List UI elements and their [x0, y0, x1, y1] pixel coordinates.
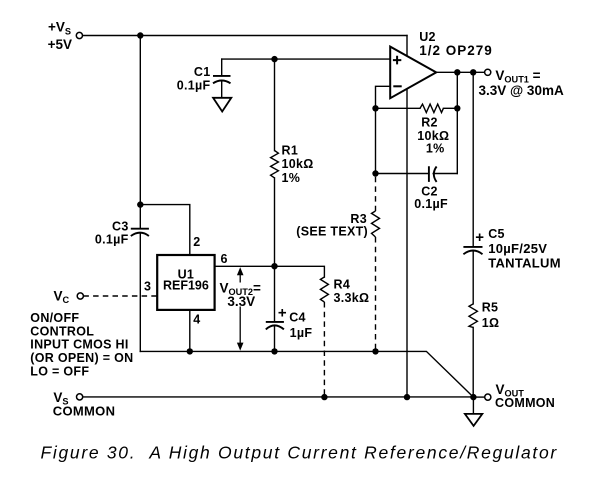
svg-text:0.1µF: 0.1µF — [95, 232, 129, 246]
svg-text:R3: R3 — [350, 212, 367, 226]
resistor R3 — [372, 211, 380, 237]
op-amp U2 noninverting + input symbol — [393, 56, 401, 65]
svg-text:CONTROL: CONTROL — [30, 324, 94, 338]
svg-text:Figure 30. A High Output Curr: Figure 30. A High Output Current Referen… — [41, 443, 558, 463]
svg-text:C5: C5 — [488, 227, 505, 241]
wire feedback right vertical — [456, 72, 458, 173]
wire R5 to Vout common — [472, 327, 474, 397]
svg-text:2: 2 — [193, 235, 200, 249]
svg-text:LO = OFF: LO = OFF — [30, 364, 89, 378]
svg-text:INPUT CMOS HI: INPUT CMOS HI — [30, 338, 128, 352]
wire C2 right — [433, 173, 457, 175]
capacitor C5 — [463, 247, 482, 254]
wire C1 to op-amp +input — [222, 58, 391, 60]
ground symbol (C1) — [213, 98, 231, 112]
wire C5 to R5 — [472, 251, 474, 304]
wire Vout common to ground — [472, 397, 474, 414]
wire left rail lower (C3 to ground rail) — [139, 233, 141, 352]
wire C4 top lead — [274, 266, 276, 321]
wire R4 dashed bottom lead — [323, 302, 325, 397]
wire op-amp V- supply drop — [406, 89, 408, 397]
wire C1 top lead — [221, 59, 223, 76]
resistor R2 — [420, 104, 443, 112]
IC U1 REF196 box — [157, 255, 214, 310]
svg-text:3.3V: 3.3V — [227, 294, 255, 309]
wire left rail upper (to C3) — [139, 36, 141, 229]
svg-text:+: + — [278, 304, 287, 321]
ground symbol (Vout common) — [465, 414, 482, 426]
svg-text:+VS: +VS — [48, 19, 71, 36]
svg-text:10kΩ: 10kΩ — [282, 157, 314, 171]
svg-text:1%: 1% — [426, 142, 445, 156]
Vout2 measurement arrow — [237, 267, 244, 350]
wire Vs common rail — [83, 396, 474, 398]
svg-text:(OR OPEN) = ON: (OR OPEN) = ON — [30, 351, 133, 365]
svg-text:VC: VC — [54, 289, 70, 306]
wire C5 top lead — [472, 72, 474, 246]
svg-text:3.3V @ 30mA: 3.3V @ 30mA — [479, 83, 564, 98]
capacitor C3 — [131, 229, 149, 236]
wire C2 left — [376, 173, 429, 175]
svg-text:+5V: +5V — [48, 37, 72, 52]
svg-text:REF196: REF196 — [163, 278, 209, 292]
wire R1 top lead — [274, 59, 276, 151]
wire ground return rail with diagonal — [140, 351, 473, 397]
svg-text:3: 3 — [144, 279, 151, 293]
wire C4 bottom lead — [274, 326, 276, 352]
svg-text:0.1µF: 0.1µF — [177, 78, 211, 92]
resistor R1 — [271, 151, 279, 178]
wire op-amp -input — [376, 86, 391, 173]
svg-text:0.1µF: 0.1µF — [414, 197, 448, 211]
svg-text:C4: C4 — [289, 311, 306, 325]
wire R2 left — [376, 107, 421, 109]
svg-text:C1: C1 — [194, 65, 211, 79]
svg-text:1%: 1% — [282, 171, 301, 185]
svg-text:R1: R1 — [282, 144, 299, 158]
capacitor C4 — [266, 322, 284, 330]
svg-text:4: 4 — [193, 313, 200, 327]
svg-text:3.3kΩ: 3.3kΩ — [334, 291, 370, 305]
svg-text:TANTALUM: TANTALUM — [488, 255, 561, 270]
svg-text:(SEE TEXT): (SEE TEXT) — [296, 225, 368, 239]
op-amp U2 triangle — [390, 47, 436, 99]
svg-text:1µF: 1µF — [290, 326, 313, 340]
wire R1 bottom lead — [274, 178, 276, 266]
resistor R5 — [469, 304, 477, 328]
wire +Vs top rail — [83, 35, 407, 37]
wire C1 bottom lead — [221, 81, 223, 98]
wire pin6 Vout2 to R4 — [215, 266, 325, 277]
svg-text:COMMON: COMMON — [495, 396, 555, 410]
op-amp U2 inverting - input symbol — [393, 85, 401, 87]
wire R3 dashed bottom lead — [375, 237, 377, 351]
wire op-amp output — [436, 71, 485, 73]
wire pin2 branch — [140, 205, 190, 255]
svg-text:ON/OFF: ON/OFF — [30, 311, 79, 325]
svg-text:10µF/25V: 10µF/25V — [488, 241, 547, 256]
svg-text:1Ω: 1Ω — [482, 316, 500, 330]
svg-text:COMMON: COMMON — [53, 404, 115, 419]
capacitor C1 — [213, 76, 231, 83]
svg-text:R5: R5 — [482, 301, 499, 315]
resistor R4 — [320, 277, 328, 302]
wire Vc dashed control line — [83, 295, 157, 297]
wire R3 dashed top lead — [375, 177, 377, 211]
svg-text:R2: R2 — [421, 115, 438, 129]
wire R2 right — [443, 107, 457, 109]
open terminals — [76, 32, 491, 400]
wire Vout common terminal stub — [473, 396, 484, 398]
svg-text:1/2 OP279: 1/2 OP279 — [419, 43, 493, 58]
svg-text:U2: U2 — [419, 30, 436, 44]
svg-text:R4: R4 — [334, 278, 351, 292]
svg-text:+: + — [475, 229, 484, 246]
svg-text:6: 6 — [221, 252, 228, 266]
wire op-amp V+ supply drop — [406, 36, 408, 57]
capacitor C2 — [429, 166, 437, 182]
wire pin4 to ground rail — [189, 310, 191, 352]
